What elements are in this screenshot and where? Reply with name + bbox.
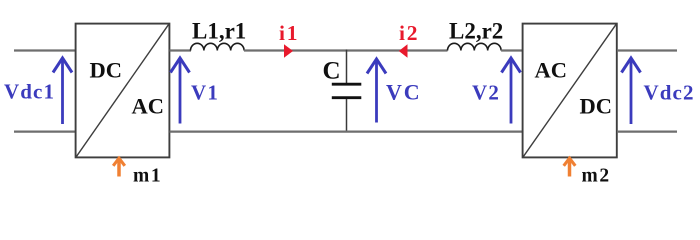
modulation arrow m1 [113, 158, 125, 176]
wire bottom-middle [170, 130, 524, 132]
wire U1 to L1 [170, 49, 192, 51]
svg-text:DC: DC [90, 58, 123, 83]
svg-text:DC: DC [580, 94, 613, 119]
capacitor C [332, 50, 362, 133]
wire top-right [617, 49, 677, 51]
svg-text:m2: m2 [582, 166, 611, 187]
svg-text:C: C [323, 58, 341, 85]
current arrow i2 [399, 44, 408, 58]
wire bottom-left [14, 130, 76, 132]
svg-text:m1: m1 [133, 166, 162, 187]
svg-text:Vdc1: Vdc1 [4, 80, 55, 104]
voltage arrow V1 [171, 58, 190, 124]
converter U1 (DC/AC) [76, 24, 170, 158]
wire L2 to U2 [501, 49, 523, 51]
voltage arrow VC [367, 59, 386, 123]
svg-text:VC: VC [386, 80, 421, 105]
inductor L1 [191, 43, 245, 50]
wire top-left [14, 49, 76, 51]
svg-text:Vdc2: Vdc2 [644, 81, 695, 105]
converter U2 (AC/DC) [523, 24, 617, 158]
svg-text:L1,r1: L1,r1 [192, 19, 246, 44]
svg-text:i2: i2 [399, 21, 419, 45]
wire L1 to capacitor node [244, 49, 448, 51]
wire bottom-right [617, 130, 677, 132]
svg-text:V2: V2 [472, 81, 500, 105]
modulation arrow m2 [564, 158, 576, 176]
voltage arrow Vdc1 [53, 58, 72, 124]
voltage arrow V2 [502, 58, 521, 124]
svg-text:V1: V1 [191, 81, 219, 105]
voltage arrow Vdc2 [622, 58, 641, 124]
svg-text:L2,r2: L2,r2 [449, 19, 503, 44]
svg-text:i1: i1 [279, 21, 299, 45]
svg-text:AC: AC [132, 94, 165, 119]
svg-text:AC: AC [535, 58, 568, 83]
current arrow i1 [284, 44, 293, 58]
inductor L2 [448, 43, 502, 50]
